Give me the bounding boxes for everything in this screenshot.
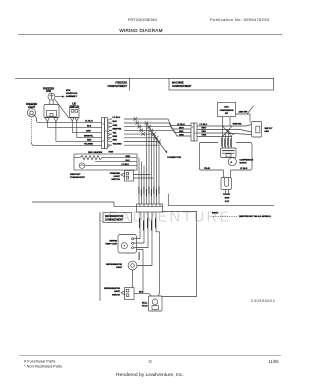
mull plug label bbox=[142, 302, 148, 307]
wire freezer light dotted drop bbox=[31, 117, 33, 143]
svg-text:COMPARTMENT: COMPARTMENT bbox=[172, 85, 192, 88]
bundle drop wires to strip bbox=[139, 123, 159, 204]
defrost thermostat label bbox=[70, 174, 86, 179]
svg-text:ADC: ADC bbox=[224, 106, 229, 109]
strip lower vertical labels bbox=[139, 218, 156, 231]
band wire 6 bbox=[124, 137, 157, 139]
svg-text:SER PLT: SER PLT bbox=[265, 128, 274, 130]
connector chevrons on band bbox=[134, 117, 161, 143]
ambient sensor lead bbox=[247, 106, 254, 114]
BLK vertical label bbox=[139, 252, 140, 260]
svg-text:RED: RED bbox=[202, 131, 207, 133]
svg-text:CAP: CAP bbox=[225, 200, 230, 203]
machine band wire d bbox=[197, 136, 232, 138]
svg-text:DEF. HEATER: DEF. HEATER bbox=[88, 151, 103, 154]
machine band wire c bbox=[197, 133, 252, 135]
svg-text:BLK: BLK bbox=[87, 126, 92, 128]
svg-text:AMB TMP: AMB TMP bbox=[239, 111, 249, 114]
service cord plug bbox=[252, 122, 262, 138]
switch to plug wire bbox=[134, 293, 152, 296]
heater middle wire bbox=[95, 161, 137, 163]
svg-text:RED: RED bbox=[113, 140, 118, 142]
svg-text:DEFROST: DEFROST bbox=[70, 174, 81, 176]
refrigerator temp control bbox=[118, 235, 137, 254]
svg-text:ORN: ORN bbox=[113, 125, 118, 127]
svg-text:* Non-Illustrated Parts: * Non-Illustrated Parts bbox=[24, 364, 62, 369]
band wire 8 bbox=[124, 144, 159, 146]
svg-text:RED: RED bbox=[87, 140, 92, 142]
svg-text:SWITCH: SWITCH bbox=[112, 294, 120, 296]
freezer light switch body bbox=[121, 171, 134, 182]
svg-text:Publication No: 5995478293: Publication No: 5995478293 bbox=[210, 17, 270, 22]
refrigerator compartment label box bbox=[103, 213, 132, 223]
footer rule bbox=[19, 355, 281, 357]
svg-text:START/CAP: START/CAP bbox=[66, 92, 78, 95]
run capacitor stubs bbox=[226, 190, 229, 194]
refrigerator temp control label bbox=[105, 240, 118, 245]
svg-text:COMPRESSOR: COMPRESSOR bbox=[240, 160, 254, 162]
svg-text:YEL/R: YEL/R bbox=[204, 168, 210, 170]
svg-text:LIGHT: LIGHT bbox=[116, 267, 123, 269]
header rule bbox=[18, 34, 282, 36]
bundle vertical wire labels bbox=[138, 187, 159, 197]
refrigerator light lower lead bbox=[132, 270, 134, 288]
machine compartment label box bbox=[169, 78, 274, 90]
refrigerator compartment left border bbox=[99, 213, 101, 302]
svg-text:Rendered by LeadVenture, Inc.: Rendered by LeadVenture, Inc. bbox=[116, 372, 184, 378]
run capacitor label bbox=[225, 198, 230, 203]
svg-text:RUN: RUN bbox=[225, 198, 230, 200]
freezer compartment label bbox=[107, 82, 127, 89]
svg-text:11: 11 bbox=[148, 359, 152, 364]
svg-text:FREEZER: FREEZER bbox=[110, 173, 121, 175]
svg-text:11/06: 11/06 bbox=[269, 359, 280, 364]
wire fan-left prong to J1 bbox=[48, 122, 102, 128]
svg-text:REFRIGERATOR: REFRIGERATOR bbox=[104, 287, 120, 290]
svg-text:240396801: 240396801 bbox=[251, 298, 276, 303]
service cord labels bbox=[265, 128, 274, 133]
refrigerator light switch body bbox=[121, 288, 134, 300]
svg-text:ORN: ORN bbox=[179, 134, 184, 136]
callout arrow to motor start/cap text bbox=[55, 95, 65, 97]
lid switch lead prongs bbox=[70, 118, 78, 122]
J1 right wire labels bbox=[113, 117, 123, 145]
wire freezer light right lead to J1 bbox=[35, 116, 102, 123]
svg-text:REFRIGERATOR: REFRIGERATOR bbox=[105, 215, 124, 218]
svg-text:COMPARTMENT: COMPARTMENT bbox=[105, 218, 124, 221]
compressor label bbox=[240, 160, 254, 165]
svg-text:MACHINE: MACHINE bbox=[172, 82, 184, 85]
freezer fan label bbox=[43, 87, 54, 93]
band wire 2 with chevron drop bbox=[124, 123, 191, 129]
J1 fan-out crimp wires right side bbox=[108, 119, 113, 148]
band wire 1 to J2 bbox=[124, 119, 191, 126]
J2 right wire labels bbox=[200, 124, 208, 137]
run cap terminal bar bbox=[223, 193, 230, 195]
ADC right wire to plug bbox=[236, 114, 251, 123]
svg-text:MTR: MTR bbox=[66, 90, 71, 92]
compartment top border bbox=[15, 77, 274, 79]
svg-text:YEL/RED: YEL/RED bbox=[84, 144, 94, 146]
wire lid-right to J1 bbox=[77, 121, 102, 137]
svg-text:WIRING DIAGRAM: WIRING DIAGRAM bbox=[119, 28, 162, 33]
machine band wire b bbox=[197, 130, 252, 133]
svg-text:BRN/YEL: BRN/YEL bbox=[113, 129, 123, 131]
svg-text:PLUG: PLUG bbox=[142, 306, 148, 308]
lid switch body bbox=[70, 108, 80, 118]
svg-text:GRN/YEL: GRN/YEL bbox=[233, 124, 243, 126]
svg-text:MULL: MULL bbox=[142, 302, 148, 304]
svg-text:GRN: GRN bbox=[109, 151, 114, 153]
svg-text:NOTE:: NOTE: bbox=[212, 212, 219, 214]
compressor box bbox=[200, 143, 253, 171]
strip lower wires bbox=[137, 212, 160, 296]
terminal block J1 bbox=[102, 118, 108, 149]
svg-text:YEL/RED: YEL/RED bbox=[113, 143, 123, 145]
note text bbox=[212, 212, 271, 218]
freezer light switch wires bbox=[134, 175, 154, 179]
svg-text:LT. BLU: LT. BLU bbox=[85, 121, 93, 123]
band wire 5 bbox=[124, 133, 154, 135]
start relay / overload bbox=[221, 148, 237, 158]
svg-text:LT. BLU: LT. BLU bbox=[200, 124, 208, 126]
svg-text:MOTOR: MOTOR bbox=[240, 163, 248, 165]
band wire 3 bbox=[124, 127, 191, 133]
svg-text:WHT: WHT bbox=[179, 127, 184, 129]
svg-text:FRT21KG3EW4: FRT21KG3EW4 bbox=[128, 17, 158, 22]
svg-text:BLK: BLK bbox=[113, 121, 118, 123]
relay wire vertical labels bbox=[221, 138, 231, 147]
defrost heater box bbox=[74, 154, 137, 170]
svg-text:COMPRESSOR: COMPRESSOR bbox=[220, 110, 234, 112]
svg-text:ASSEMBLY: ASSEMBLY bbox=[66, 95, 78, 98]
svg-text:REFRIGERATOR: REFRIGERATOR bbox=[106, 263, 122, 266]
svg-text:REFRIG: REFRIG bbox=[109, 240, 117, 242]
motor start/cap assembly label bbox=[66, 90, 78, 98]
band wire 7 bbox=[124, 141, 159, 143]
defrost thermostat symbol bbox=[79, 163, 137, 169]
run capacitor leads bbox=[224, 170, 231, 178]
wire lid-left to J1 bbox=[72, 121, 101, 132]
right side drop wire bbox=[162, 212, 197, 297]
heater wire labels bbox=[122, 156, 131, 166]
svg-text:GRN: GRN bbox=[265, 131, 270, 133]
J2 left wire labels bbox=[177, 124, 185, 137]
refrigerator harness strip bbox=[137, 204, 163, 212]
lid switch label bbox=[69, 103, 79, 109]
svg-text:LIGHT: LIGHT bbox=[113, 176, 120, 178]
svg-text:CONNECTOR: CONNECTOR bbox=[167, 157, 181, 159]
freezer light label bbox=[26, 103, 37, 109]
heater resistor element bbox=[74, 156, 137, 160]
svg-text:BLU: BLU bbox=[126, 160, 131, 162]
svg-text:THERMOSTAT: THERMOSTAT bbox=[70, 176, 86, 179]
refrigerator light symbol bbox=[128, 261, 137, 270]
band wire 4 bbox=[124, 130, 191, 136]
svg-text:ORN: ORN bbox=[86, 131, 91, 133]
wire fan-right prong to J1 bbox=[56, 122, 102, 142]
freezer fan lead prongs bbox=[45, 118, 58, 122]
terminal block J2 bbox=[191, 123, 197, 141]
ADC lead stubs bbox=[222, 117, 224, 130]
freezer compartment right divider bbox=[129, 78, 131, 90]
crossing wires X bbox=[223, 126, 235, 137]
svg-text:LT. BLU: LT. BLU bbox=[122, 164, 130, 166]
refrigerator light label bbox=[106, 263, 123, 269]
machine band wire a bbox=[197, 125, 252, 127]
svg-text:RED: RED bbox=[179, 131, 184, 133]
svg-text:TEMP CONT: TEMP CONT bbox=[105, 244, 118, 246]
connector callout arrow bbox=[152, 133, 181, 159]
wire fan to lid switch diagonal bbox=[55, 99, 70, 118]
svg-text:COMPARTMENT: COMPARTMENT bbox=[107, 85, 127, 88]
svg-text:SWITCH: SWITCH bbox=[111, 179, 120, 181]
svg-text:ORN: ORN bbox=[202, 134, 207, 136]
freezer light symbol bbox=[27, 109, 35, 117]
refrigerator light switch label bbox=[104, 287, 121, 296]
svg-text:LT. BLU: LT. BLU bbox=[177, 124, 185, 126]
svg-text:BRN: BRN bbox=[113, 136, 118, 138]
run capacitor bbox=[221, 178, 232, 190]
BLK drop from temp control bbox=[137, 250, 144, 294]
ADC control box bbox=[218, 103, 236, 117]
freezer light switch label bbox=[110, 173, 121, 181]
svg-text:FAN: FAN bbox=[46, 90, 51, 93]
freezer fan body bbox=[44, 100, 59, 118]
svg-text:FREEZER: FREEZER bbox=[115, 82, 127, 85]
svg-text:LT. BLU: LT. BLU bbox=[113, 117, 121, 119]
ground wire right segment bbox=[168, 194, 274, 206]
svg-text:DENOTES NOT ON ALL MODELS.: DENOTES NOT ON ALL MODELS. bbox=[239, 215, 271, 218]
svg-text:WHT: WHT bbox=[202, 127, 207, 129]
svg-text:LIGHT: LIGHT bbox=[114, 291, 121, 293]
relay drop wires bbox=[223, 130, 232, 149]
svg-text:BRN/YEL: BRN/YEL bbox=[84, 136, 94, 138]
freezer fan motor symbol bbox=[48, 93, 55, 100]
svg-text:LT. BLU: LT. BLU bbox=[240, 168, 248, 170]
svg-text:BRN: BRN bbox=[126, 156, 131, 158]
mull plug body bbox=[149, 296, 163, 311]
wire freezer light run to J1 bbox=[32, 143, 102, 146]
compressor motor circle bbox=[228, 158, 236, 166]
long ground wire bbox=[32, 202, 137, 207]
